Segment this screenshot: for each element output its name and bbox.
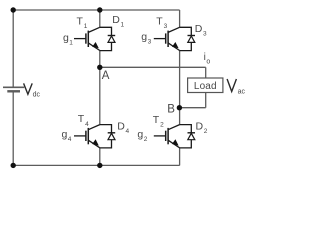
transistor T2 gate bar — [165, 131, 167, 141]
wire load top drop — [205, 67, 207, 78]
transistor T3 collector angle — [168, 27, 180, 32]
svg-text:g: g — [63, 32, 69, 44]
svg-text:4: 4 — [126, 128, 130, 135]
battery Vdc negative plate — [7, 90, 20, 92]
svg-text:D: D — [196, 120, 204, 132]
diode D1 frame — [100, 27, 112, 50]
svg-text:3: 3 — [203, 30, 207, 37]
node B junction — [177, 105, 182, 110]
transistor T3 body bar — [167, 31, 169, 47]
svg-text:ac: ac — [238, 88, 246, 95]
diode D1 cathode bar — [108, 35, 116, 37]
svg-text:3: 3 — [148, 39, 152, 46]
wire top rail — [13, 9, 179, 11]
svg-text:g: g — [137, 128, 143, 140]
diode D2 cathode bar — [188, 132, 196, 134]
diode D4 cathode bar — [108, 132, 116, 134]
svg-text:D: D — [195, 23, 203, 35]
wire right leg top (T3 collector lead) — [179, 10, 181, 27]
diode D4 triangle — [108, 133, 115, 139]
svg-text:o: o — [206, 58, 210, 65]
transistor T4 gate bar — [85, 131, 87, 141]
transistor T4 emitter arrow — [92, 139, 99, 145]
transistor T3 gate bar — [165, 33, 167, 43]
transistor T4 body bar — [87, 128, 89, 144]
svg-text:1: 1 — [69, 39, 73, 46]
svg-text:g: g — [62, 129, 68, 141]
svg-text:g: g — [141, 31, 147, 43]
svg-text:2: 2 — [160, 122, 164, 129]
transistor T2 gate lead — [154, 135, 166, 137]
transistor T2 emitter angle — [168, 140, 180, 148]
wire battery positive lead — [12, 10, 14, 87]
diode D3 cathode bar — [188, 35, 196, 37]
transistor T2 emitter arrow — [172, 139, 179, 145]
label Vdc — [24, 83, 33, 94]
junction bottom-left — [11, 163, 16, 168]
transistor T4 gate lead — [74, 135, 86, 137]
svg-text:T: T — [77, 15, 84, 27]
diode D2 frame — [180, 125, 192, 148]
transistor T1 gate bar — [85, 33, 87, 43]
diode D3 frame — [180, 27, 192, 50]
transistor T3 emitter arrow — [172, 42, 179, 48]
svg-text:D: D — [117, 121, 125, 133]
diode D1 triangle — [108, 36, 115, 42]
svg-text:1: 1 — [121, 21, 125, 28]
load box — [188, 78, 223, 93]
transistor T1 emitter angle — [88, 43, 100, 51]
transistor T2 collector angle — [168, 125, 180, 130]
label Vac — [227, 79, 236, 92]
svg-text:T: T — [156, 15, 163, 27]
svg-text:A: A — [102, 70, 110, 82]
transistor T1 body bar — [87, 31, 89, 47]
transistor T4 collector angle — [88, 125, 100, 130]
transistor T1 gate lead — [74, 38, 86, 40]
wire left leg T1 emitter to node A to T4 collector — [99, 51, 101, 125]
wire battery negative lead — [12, 91, 14, 165]
svg-text:Load: Load — [194, 81, 217, 92]
battery Vdc positive plate — [3, 86, 24, 88]
svg-text:3: 3 — [164, 23, 168, 30]
junction top rail at T1 collector — [97, 7, 102, 12]
svg-text:1: 1 — [84, 23, 88, 30]
svg-text:4: 4 — [85, 121, 89, 128]
diode D4 frame — [100, 125, 112, 148]
svg-text:4: 4 — [68, 136, 72, 143]
junction bottom rail at T4 emitter — [97, 163, 102, 168]
svg-text:T: T — [78, 113, 85, 125]
wire bottom rail — [13, 164, 180, 166]
transistor T1 collector angle — [88, 27, 100, 32]
wire node A to load top — [100, 66, 206, 68]
wire right leg T2 emitter lead — [179, 148, 181, 166]
node A junction — [97, 65, 102, 70]
transistor T3 gate lead — [154, 38, 166, 40]
transistor T2 body bar — [167, 128, 169, 144]
svg-text:D: D — [112, 14, 120, 26]
diode D2 triangle — [188, 133, 195, 139]
wire left leg T1 collector lead — [99, 10, 101, 27]
wire right leg T3 emitter to node B to T2 collector — [179, 51, 181, 125]
wire load bottom drop — [205, 93, 207, 108]
junction top-left — [11, 7, 16, 12]
svg-text:B: B — [167, 104, 175, 116]
wire node B to load bottom — [179, 107, 205, 109]
transistor T4 emitter angle — [88, 140, 100, 148]
wire left leg T4 emitter lead — [99, 148, 101, 166]
svg-text:2: 2 — [204, 128, 208, 135]
transistor T1 emitter arrow — [92, 42, 99, 48]
diode D3 triangle — [188, 36, 195, 42]
svg-text:dc: dc — [33, 92, 41, 99]
svg-text:2: 2 — [144, 136, 148, 143]
svg-text:T: T — [153, 114, 160, 126]
transistor T3 emitter angle — [168, 43, 180, 51]
